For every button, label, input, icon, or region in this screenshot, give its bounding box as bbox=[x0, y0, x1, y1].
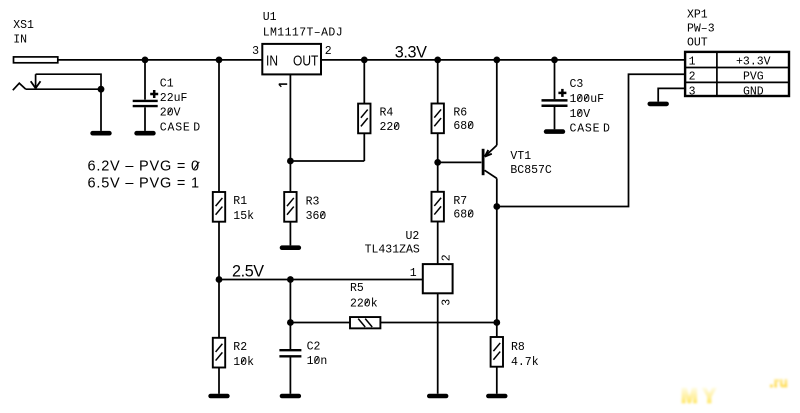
svg-text:R4: R4 bbox=[380, 107, 394, 120]
svg-text:2: 2 bbox=[325, 45, 332, 58]
svg-text:1: 1 bbox=[689, 56, 696, 69]
svg-text:R2: R2 bbox=[233, 341, 247, 354]
svg-text:OUT: OUT bbox=[687, 36, 708, 49]
svg-text:20V: 20V bbox=[160, 107, 181, 120]
svg-text:1: 1 bbox=[410, 267, 417, 280]
svg-text:+3.3V: +3.3V bbox=[736, 56, 771, 69]
svg-text:D: D bbox=[603, 123, 610, 136]
svg-text:10k: 10k bbox=[233, 356, 254, 369]
svg-text:2: 2 bbox=[441, 254, 454, 261]
svg-text:3: 3 bbox=[689, 85, 696, 98]
svg-text:IN: IN bbox=[13, 33, 27, 46]
svg-text:U1: U1 bbox=[263, 11, 277, 24]
svg-text:10V: 10V bbox=[570, 108, 591, 121]
svg-text:22uF: 22uF bbox=[160, 92, 188, 105]
svg-text:R1: R1 bbox=[233, 195, 247, 208]
svg-text:MY: MY bbox=[681, 386, 721, 408]
svg-text:D: D bbox=[193, 121, 200, 134]
svg-text:XP1: XP1 bbox=[687, 8, 708, 21]
svg-text:.ru: .ru bbox=[770, 375, 789, 390]
svg-text:C1: C1 bbox=[160, 77, 174, 90]
svg-text:U2: U2 bbox=[406, 230, 420, 243]
svg-text:6.5V – PVG = 1: 6.5V – PVG = 1 bbox=[88, 176, 200, 192]
svg-text:3: 3 bbox=[441, 299, 454, 306]
svg-text:680: 680 bbox=[453, 120, 474, 133]
svg-text:BC857C: BC857C bbox=[510, 164, 552, 177]
svg-text:IN: IN bbox=[266, 52, 278, 69]
svg-text:C2: C2 bbox=[307, 340, 321, 353]
svg-text:LM1117T–ADJ: LM1117T–ADJ bbox=[263, 27, 343, 40]
svg-text:220k: 220k bbox=[350, 297, 378, 310]
svg-text:R6: R6 bbox=[453, 106, 467, 119]
svg-text:PVG: PVG bbox=[743, 71, 764, 84]
svg-text:360: 360 bbox=[306, 210, 327, 223]
svg-text:680: 680 bbox=[453, 209, 474, 222]
svg-text:3.3V: 3.3V bbox=[395, 44, 427, 62]
svg-text:3: 3 bbox=[252, 45, 259, 58]
svg-text:100uF: 100uF bbox=[570, 93, 605, 106]
svg-text:R7: R7 bbox=[453, 195, 467, 208]
svg-text:2: 2 bbox=[689, 71, 696, 84]
svg-text:R8: R8 bbox=[511, 341, 525, 354]
svg-text:VT1: VT1 bbox=[510, 150, 531, 163]
svg-text:6.2V – PVG = 0: 6.2V – PVG = 0 bbox=[88, 159, 200, 175]
svg-text:220: 220 bbox=[380, 121, 401, 134]
svg-text:CASE: CASE bbox=[570, 123, 601, 136]
svg-text:OUT: OUT bbox=[293, 52, 318, 69]
svg-text:TL431ZAS: TL431ZAS bbox=[365, 244, 420, 257]
svg-text:GND: GND bbox=[743, 85, 764, 98]
svg-text:CASE: CASE bbox=[160, 121, 191, 134]
svg-text:4.7k: 4.7k bbox=[511, 356, 539, 369]
svg-text:R3: R3 bbox=[306, 195, 320, 208]
svg-text:XS1: XS1 bbox=[13, 19, 34, 32]
svg-text:15k: 15k bbox=[233, 210, 254, 223]
svg-text:PW–3: PW–3 bbox=[687, 23, 715, 36]
svg-text:R5: R5 bbox=[350, 282, 364, 295]
svg-text:C3: C3 bbox=[570, 78, 584, 91]
svg-text:10n: 10n bbox=[307, 355, 328, 368]
svg-text:2.5V: 2.5V bbox=[232, 263, 264, 281]
